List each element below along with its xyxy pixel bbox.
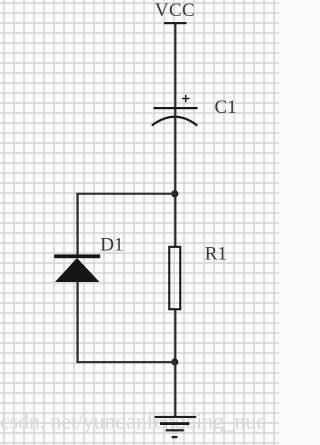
wire bottom rail (horizontal): [76, 361, 175, 363]
junction node A: [171, 190, 178, 197]
wire node B to ground: [174, 362, 176, 417]
wire node A to R1 top: [174, 194, 176, 247]
wire left branch down to D1 cathode: [76, 193, 78, 255]
svg-text:D1: D1: [100, 234, 123, 255]
svg-text:csdn. net/yundanfengqing_nuc: csdn. net/yundanfengqing_nuc: [0, 409, 266, 434]
wire D1 anode down to bottom rail: [76, 281, 78, 363]
svg-text:VCC: VCC: [155, 0, 195, 21]
svg-text:C1: C1: [215, 97, 237, 118]
resistor R1 body: [169, 247, 180, 309]
ground line 1: [155, 416, 197, 418]
wire node A to left branch (horizontal): [76, 193, 175, 195]
diode D1 triangle (anode, pointing up): [55, 258, 100, 282]
wire R1 bottom to node B: [174, 310, 176, 362]
power symbol VCC bar: [164, 22, 187, 24]
capacitor C1 top plate: [154, 107, 198, 109]
ground line 4: [172, 436, 178, 438]
ground line 3: [166, 429, 184, 431]
capacitor C1 plus sign: [182, 95, 190, 102]
diode D1 cathode bar: [54, 254, 100, 258]
wire C1 bottom to node A: [174, 109, 176, 195]
capacitor C1 bottom plate (curved): [153, 117, 197, 125]
svg-text:R1: R1: [205, 243, 227, 264]
junction node B: [171, 358, 178, 365]
wire VCC bar to C1 top plate: [174, 23, 176, 108]
ground line 2: [160, 422, 190, 425]
